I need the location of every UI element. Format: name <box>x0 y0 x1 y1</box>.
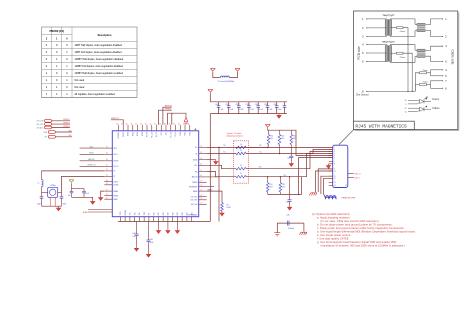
vertical bus right of IC 2 <box>218 147 220 221</box>
svg-text:0.1uF: 0.1uF <box>85 193 89 195</box>
svg-text:RD-: RD- <box>284 175 287 177</box>
capacitor C36 0.1uF <box>273 102 281 114</box>
svg-text:g. Use ferromagnetic bead betw: g. Use ferromagnetic bead between digita… <box>317 240 397 244</box>
svg-text:C34: C34 <box>255 104 258 106</box>
svg-text:4700pF: 4700pF <box>288 228 295 230</box>
svg-text:TD+: TD+ <box>259 145 262 147</box>
svg-text:RX_ER: RX_ER <box>147 132 149 137</box>
wire MDC <box>80 146 105 148</box>
svg-text:X1: X1 <box>114 176 116 178</box>
svg-text:PFBOUT: PFBOUT <box>63 122 69 124</box>
svg-text:0.1uF: 0.1uF <box>250 109 254 111</box>
svg-text:TX±(CT)-(CT: TX±(CT)-(CT <box>382 15 395 17</box>
resistor R11 49.9 <box>267 130 273 147</box>
svg-text:f. Use high quality CAT5E.: f. Use high quality CAT5E. <box>317 236 350 240</box>
svg-text:0: 0 <box>46 58 48 61</box>
svg-text:C48: C48 <box>150 239 153 241</box>
ground R7 <box>220 211 224 216</box>
wire decoupling top rail <box>210 94 287 102</box>
wire AVDD riser 4 <box>171 113 173 125</box>
svg-text:RESET_N: RESET_N <box>88 165 97 167</box>
cable pin 6 <box>442 61 447 64</box>
svg-text:2: 2 <box>334 149 335 151</box>
svg-text:LED_LNK: LED_LNK <box>37 121 44 123</box>
svg-text:1.0: 1.0 <box>240 173 242 175</box>
wire RX secondary bottom <box>390 57 415 63</box>
svg-text:1.0: 1.0 <box>240 150 242 152</box>
svg-text:TRST: TRST <box>144 212 146 216</box>
wire AGND lower 2 <box>88 211 112 213</box>
ground C48 <box>146 253 150 258</box>
capacitor C47 1uF <box>132 222 138 247</box>
wire shield stub with ground <box>329 163 333 165</box>
svg-text:R12: R12 <box>281 136 284 138</box>
svg-text:TD+: TD+ <box>195 147 198 149</box>
wire to cable pin 1 <box>425 19 442 25</box>
wire X1 to crystal rail <box>42 170 105 172</box>
svg-text:4: 4 <box>445 69 447 72</box>
svg-text:PFBIN: PFBIN <box>114 195 118 197</box>
resistor R23 PWR <box>44 130 73 134</box>
svg-text:1: 1 <box>56 93 58 96</box>
pin 2 PCB side <box>362 27 387 30</box>
ground bottom bus 1 <box>158 222 160 229</box>
svg-text:9: 9 <box>334 169 335 171</box>
svg-text:1uF: 1uF <box>68 195 71 197</box>
pin 4 PCB side <box>362 44 387 47</box>
wire RD- jog <box>207 172 236 177</box>
svg-text:100BT Full duplex, Auto-negoti: 100BT Full duplex, Auto-negotiation disa… <box>75 65 124 68</box>
svg-text:1: 1 <box>56 65 58 68</box>
svg-text:PFBOUT: PFBOUT <box>63 119 69 121</box>
svg-text:41: 41 <box>150 123 152 125</box>
RJ45 with magnetics detail box <box>353 11 458 131</box>
label damping option <box>227 132 243 138</box>
transformer T2 RX <box>385 46 391 62</box>
svg-text:45: 45 <box>131 123 133 125</box>
transformer T1 TX <box>385 20 391 36</box>
svg-text:LED_ACT: LED_ACT <box>37 126 44 129</box>
svg-text:damping resistors: damping resistors <box>227 135 243 138</box>
svg-text:2: 2 <box>445 36 447 39</box>
wire TD- <box>207 151 236 153</box>
svg-text:RD+: RD+ <box>259 167 262 169</box>
capacitor C32 0.1uF <box>235 102 243 114</box>
ferrite bead FB2 <box>325 196 336 200</box>
IC top pin labels <box>118 132 191 138</box>
svg-text:C36: C36 <box>273 104 276 106</box>
svg-text:a. Apply damping resistors.: a. Apply damping resistors. <box>317 216 350 220</box>
svg-text:0: 0 <box>66 44 68 47</box>
power flag VDD33 decoupling rail <box>208 90 213 94</box>
svg-text:IOVDD33: IOVDD33 <box>118 132 120 138</box>
svg-text:34: 34 <box>183 123 185 125</box>
svg-text:RXD2: RXD2 <box>132 132 134 136</box>
option box dashed <box>234 141 249 183</box>
svg-text:4: 4 <box>334 153 335 155</box>
wire chassis net 4 <box>324 178 333 198</box>
wire to cable pin 6 <box>425 56 442 61</box>
svg-text:33pF: 33pF <box>63 204 67 206</box>
svg-text:6: 6 <box>362 61 364 64</box>
svg-text:33: 33 <box>188 123 190 125</box>
wire LED yellow from connector <box>348 178 361 180</box>
wire PFBIN stub <box>207 176 219 178</box>
svg-text:R14: R14 <box>270 184 273 186</box>
resistor R3 damping RD+ <box>236 165 310 170</box>
resistor R13 49.9 <box>290 130 296 156</box>
svg-text:TXD0: TXD0 <box>180 132 182 136</box>
svg-text:RBIAS: RBIAS <box>114 190 119 193</box>
svg-text:R11: R11 <box>270 136 273 138</box>
net label PFBOUT top-left <box>111 118 123 125</box>
svg-text:MDC: MDC <box>114 148 118 150</box>
resistor TX center-tap 75ohm <box>390 27 408 92</box>
ground decoupling rail <box>277 114 281 119</box>
RJ45 title box <box>353 121 414 130</box>
wire AGND lower 1 <box>83 210 112 214</box>
svg-text:75ohm: 75ohm <box>423 82 429 84</box>
svg-text:1: 1 <box>66 65 68 68</box>
svg-text:0.1uF: 0.1uF <box>240 109 244 111</box>
notes EMI reduction <box>312 212 416 247</box>
svg-text:MDIO: MDIO <box>89 153 94 155</box>
svg-text:VDD: VDD <box>191 212 193 215</box>
svg-text:J2: J2 <box>345 185 347 187</box>
svg-text:8: 8 <box>334 164 335 166</box>
svg-text:PWDN: PWDN <box>114 161 119 163</box>
svg-text:0.1uF: 0.1uF <box>278 109 282 111</box>
svg-text:75ohm: 75ohm <box>423 70 429 72</box>
svg-text:0: 0 <box>66 72 68 75</box>
svg-text:RX±(CT)-(CT: RX±(CT)-(CT <box>382 42 395 44</box>
svg-text:AVDD33: AVDD33 <box>165 105 172 108</box>
svg-text:AVDD33: AVDD33 <box>192 176 198 179</box>
svg-text:C33: C33 <box>245 104 248 106</box>
svg-text:C35: C35 <box>264 104 267 106</box>
ground C47 <box>134 247 138 252</box>
wire ferrite left <box>213 72 221 77</box>
wire cap right leg <box>303 223 305 231</box>
svg-text:0.1uF: 0.1uF <box>219 109 223 111</box>
svg-text:37: 37 <box>169 123 171 125</box>
wire chassis net 1 <box>318 169 333 192</box>
svg-text:PWRDN: PWRDN <box>125 210 127 215</box>
wire chassis net 3 <box>321 176 333 194</box>
wire TX secondary top <box>390 19 415 24</box>
svg-text:TXD3: TXD3 <box>120 212 122 216</box>
svg-text:1: 1 <box>66 93 68 96</box>
ground TX CT cap <box>289 162 293 167</box>
svg-text:GND: GND <box>158 212 160 215</box>
svg-text:43: 43 <box>140 123 142 125</box>
wire MDIO <box>80 153 105 155</box>
svg-text:RX_CLK: RX_CLK <box>151 132 153 138</box>
wire RD+ jog <box>207 165 236 168</box>
svg-text:25MHz: 25MHz <box>50 185 56 187</box>
capacitor C45 RX CT <box>286 177 292 206</box>
resistor R24 INT <box>45 135 73 139</box>
svg-text:PFBIN1: PFBIN1 <box>165 109 172 111</box>
svg-text:RXD0: RXD0 <box>142 132 144 136</box>
termination resistor pins 4-5 75ohm <box>415 69 447 92</box>
svg-text:TD-: TD- <box>195 153 198 155</box>
svg-text:Cable side: Cable side <box>451 49 455 64</box>
IC right pin labels <box>189 147 198 206</box>
svg-text:C47: C47 <box>132 233 135 235</box>
svg-text:VDD: VDD <box>182 212 184 215</box>
svg-text:10: 10 <box>405 100 407 102</box>
svg-text:Chs Ground: Chs Ground <box>356 94 369 97</box>
svg-text:d. Use equal length differenti: d. Use equal length differential MDI (Me… <box>317 229 416 233</box>
svg-text:LED_LNK: LED_LNK <box>191 204 198 206</box>
ferrite bead FB1 <box>220 76 229 78</box>
ground AGND right <box>214 160 218 165</box>
wire RESET_N <box>80 165 105 167</box>
svg-text:13: 13 <box>334 182 336 184</box>
svg-text:49.9: 49.9 <box>270 187 273 189</box>
svg-text:Not used: Not used <box>75 86 85 89</box>
wire chassis net 2 <box>316 171 333 192</box>
svg-text:0.1uF: 0.1uF <box>268 109 272 111</box>
svg-text:INT: INT <box>45 137 48 139</box>
svg-text:46: 46 <box>126 123 128 125</box>
svg-text:CRS: CRS <box>161 132 163 135</box>
svg-text:1.0: 1.0 <box>240 165 242 167</box>
svg-text:5: 5 <box>334 155 335 157</box>
svg-text:1uF: 1uF <box>133 236 136 238</box>
svg-text:3: 3 <box>334 151 335 153</box>
connector J2 RJ45 jack <box>329 145 348 187</box>
power arrow VDD near IC <box>167 113 187 125</box>
svg-text:TXD1: TXD1 <box>185 132 187 136</box>
svg-text:0.1uF: 0.1uF <box>259 109 263 111</box>
svg-text:2: 2 <box>46 38 48 41</box>
IC top pin stubs and numbers <box>116 123 189 131</box>
cable pin 1 <box>442 18 447 21</box>
wire AVDD riser 3 <box>166 113 168 125</box>
capacitor C30 0.1uF <box>215 102 223 114</box>
ground RX CT cap <box>288 205 292 210</box>
svg-text:MACINT: MACINT <box>88 158 94 161</box>
svg-text:R15: R15 <box>282 184 285 186</box>
svg-text:1: 1 <box>362 18 364 21</box>
resistor R2 damping TD- <box>236 150 280 155</box>
svg-text:LED_Y: LED_Y <box>355 178 361 180</box>
op IC U1 DP83848 PHY body <box>112 131 198 217</box>
chassis ground below connector <box>309 193 316 196</box>
svg-text:1: 1 <box>56 58 58 61</box>
wire to cable pin 3 <box>425 46 442 50</box>
wire AVDD riser 1 <box>159 110 172 125</box>
common-mode choke RX <box>415 49 425 57</box>
svg-text:C30: C30 <box>215 104 218 106</box>
resistor R1 damping TD+ <box>236 144 268 149</box>
svg-text:LED_SPD: LED_SPD <box>36 124 44 126</box>
svg-text:0: 0 <box>46 65 48 68</box>
wire LED green from connector <box>348 173 361 175</box>
svg-text:8: 8 <box>362 90 364 93</box>
svg-text:10: 10 <box>334 171 336 173</box>
svg-text:0.1uF: 0.1uF <box>230 109 234 111</box>
svg-text:1: 1 <box>46 86 48 89</box>
svg-text:RD-: RD- <box>195 171 198 173</box>
svg-text:PWR: PWR <box>44 132 48 134</box>
wire RD pull rail loop <box>268 175 302 195</box>
svg-text:X2: X2 <box>114 171 116 173</box>
svg-text:12: 12 <box>405 108 407 110</box>
svg-text:0: 0 <box>66 86 68 89</box>
IC bottom pin labels <box>120 210 193 215</box>
svg-text:b. Do not place power (and gro: b. Do not place power (and ground) plane… <box>317 223 393 227</box>
svg-text:11: 11 <box>405 112 407 114</box>
svg-text:49.9: 49.9 <box>281 138 284 140</box>
capacitor C46 4700pF 2kV <box>286 214 295 230</box>
svg-text:0: 0 <box>46 51 48 54</box>
svg-text:9: 9 <box>406 104 407 106</box>
svg-text:0: 0 <box>46 44 48 47</box>
svg-text:RBIAS: RBIAS <box>208 188 213 191</box>
cable pin 3 <box>442 45 447 48</box>
wire RBIAS ground stub <box>101 191 105 196</box>
svg-text:AGND: AGND <box>193 159 198 162</box>
resistor R14 49.9 <box>266 183 272 195</box>
capacitor C37 10uF <box>283 102 287 114</box>
svg-text:AGND: AGND <box>83 211 89 214</box>
wire TXCT to connector <box>291 130 332 155</box>
svg-text:1.0: 1.0 <box>240 144 242 146</box>
svg-text:0: 0 <box>56 79 58 82</box>
wire RD- to connector <box>302 154 333 177</box>
cable pin 2 <box>442 36 447 39</box>
svg-text:DGND: DGND <box>114 181 119 183</box>
capacitor C48 10uF <box>147 222 154 253</box>
svg-text:PMODE [2:0]: PMODE [2:0] <box>50 30 65 33</box>
svg-text:IOGND: IOGND <box>114 185 120 187</box>
svg-text:39: 39 <box>159 123 161 125</box>
wire TD- to connector <box>280 149 333 153</box>
wire ferrite right <box>229 72 237 77</box>
resistor R15 49.9 <box>279 183 285 195</box>
svg-text:AGND: AGND <box>114 198 119 201</box>
ground bottom bus 3 <box>176 222 178 229</box>
svg-text:COL: COL <box>166 132 168 135</box>
svg-text:RXD1: RXD1 <box>137 132 139 136</box>
resistor R22 LED_ACT <box>37 126 70 130</box>
svg-text:6: 6 <box>334 157 335 159</box>
svg-text:5: 5 <box>445 75 447 78</box>
svg-text:FERRITE CHIP: FERRITE CHIP <box>342 198 357 200</box>
svg-text:C32: C32 <box>235 104 238 106</box>
capacitor C33 0.1uF <box>245 102 253 114</box>
resistor R7 4.87K <box>221 203 232 212</box>
ground bypass caps <box>91 200 95 205</box>
svg-text:2.5 ohm@100MHz: 2.5 ohm@100MHz <box>218 81 235 83</box>
wire decoupling bottom rail <box>210 113 287 115</box>
capacitor C31 0.1uF <box>225 102 233 114</box>
svg-text:RESERVED: RESERVED <box>189 187 198 189</box>
svg-text:42: 42 <box>145 123 147 125</box>
svg-text:10uF: 10uF <box>150 242 154 244</box>
svg-text:40: 40 <box>154 123 156 125</box>
svg-text:LED_SPD: LED_SPD <box>191 200 199 202</box>
wire RBIAS to resistor <box>207 188 222 202</box>
svg-text:IOGND: IOGND <box>123 132 125 137</box>
LED yellow <box>405 106 440 114</box>
power flag TX pull-ups <box>265 125 270 129</box>
svg-text:TDO: TDO <box>134 211 136 215</box>
svg-text:MDIO: MDIO <box>114 154 119 156</box>
wire TX pull-up rail <box>268 129 292 131</box>
svg-text:TMS: TMS <box>139 212 141 215</box>
svg-text:Not used: Not used <box>75 79 85 82</box>
svg-text:0: 0 <box>56 44 58 47</box>
resistor R12 49.9 <box>278 130 284 153</box>
ground bottom bus 2 <box>167 222 169 229</box>
chassis ground rail <box>356 90 415 96</box>
svg-text:8: 8 <box>445 87 447 90</box>
svg-text:1: 1 <box>46 79 48 82</box>
svg-text:GND: GND <box>168 212 170 215</box>
svg-text:36: 36 <box>173 123 175 125</box>
ground crystal <box>56 206 60 211</box>
pointer line to connector <box>339 130 353 145</box>
svg-text:1: 1 <box>445 18 447 21</box>
resistor R21 LED_SPD <box>36 122 70 126</box>
wire cap left leg <box>276 223 278 233</box>
svg-text:47: 47 <box>121 123 123 125</box>
svg-text:4: 4 <box>362 44 364 47</box>
svg-text:L1: L1 <box>38 183 40 185</box>
svg-text:49.9: 49.9 <box>270 138 273 140</box>
svg-text:1: 1 <box>56 38 58 41</box>
svg-text:PCB side: PCB side <box>357 46 361 60</box>
ground RBIAS <box>99 196 103 201</box>
svg-text:7: 7 <box>445 80 447 83</box>
svg-text:33pF: 33pF <box>37 204 41 206</box>
wire TX secondary bottom <box>390 31 415 37</box>
svg-text:PFBOUT: PFBOUT <box>63 126 69 128</box>
svg-text:C31: C31 <box>225 104 228 106</box>
svg-text:4.87K: 4.87K <box>226 207 231 209</box>
svg-text:TD+: TD+ <box>223 145 226 147</box>
svg-text:38: 38 <box>164 123 166 125</box>
svg-text:11: 11 <box>334 176 336 178</box>
svg-text:TD-: TD- <box>259 151 262 153</box>
wire chassis capacitor <box>277 222 304 224</box>
capacitor C43 <box>82 189 89 198</box>
svg-text:GND: GND <box>187 212 189 215</box>
IC left pin stubs and numbers <box>104 146 112 199</box>
wire caps to ground <box>72 197 93 199</box>
svg-text:(impedance of between 300 and: (impedance of between 300 and 2500 ohms … <box>321 243 406 247</box>
svg-text:c. Place power and ground plan: c. Place power and ground planes under f… <box>317 226 405 230</box>
power flag AVDD33 <box>210 69 215 73</box>
capacitor C42 <box>68 189 73 198</box>
svg-text:2: 2 <box>362 27 364 30</box>
svg-text:RXD3: RXD3 <box>128 132 130 136</box>
svg-text:TX_CLK: TX_CLK <box>170 132 172 137</box>
vertical bus VDD right of IC <box>209 114 211 222</box>
svg-text:Yellow: Yellow <box>432 106 440 110</box>
svg-text:RX_DV: RX_DV <box>156 132 158 137</box>
svg-text:0: 0 <box>66 38 68 41</box>
svg-text:TXD2: TXD2 <box>189 132 191 136</box>
svg-text:1: 1 <box>46 72 48 75</box>
svg-text:0: 0 <box>66 58 68 61</box>
common-mode choke TX <box>415 23 425 31</box>
svg-text:TDI: TDI <box>149 212 151 215</box>
